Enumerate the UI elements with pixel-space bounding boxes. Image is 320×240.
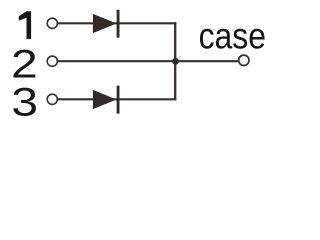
svg-text:case: case (199, 16, 266, 57)
net label case (199, 16, 266, 57)
vertical bus wire (174, 22, 176, 100)
pin 2 terminal circle (47, 56, 57, 66)
pin label 3 (11, 80, 38, 124)
svg-text:3: 3 (11, 80, 38, 124)
diode D2 cathode bar (117, 86, 120, 114)
pin 1 terminal circle (47, 18, 57, 28)
pin 3 terminal circle (47, 94, 57, 104)
wire pin1 to bus (58, 22, 176, 24)
pin label 1 (stem) (27, 11, 32, 39)
diode D2 anode triangle (93, 90, 117, 109)
diode D1 anode triangle (93, 14, 117, 33)
case terminal circle (239, 55, 249, 65)
junction node dot (172, 58, 179, 65)
pin label 2 (11, 42, 38, 86)
diode D1 cathode bar (117, 10, 120, 38)
wire pin2 to case terminal (58, 60, 238, 62)
pin label 1 (flag) (19, 11, 27, 20)
wire pin3 to bus (58, 98, 176, 100)
